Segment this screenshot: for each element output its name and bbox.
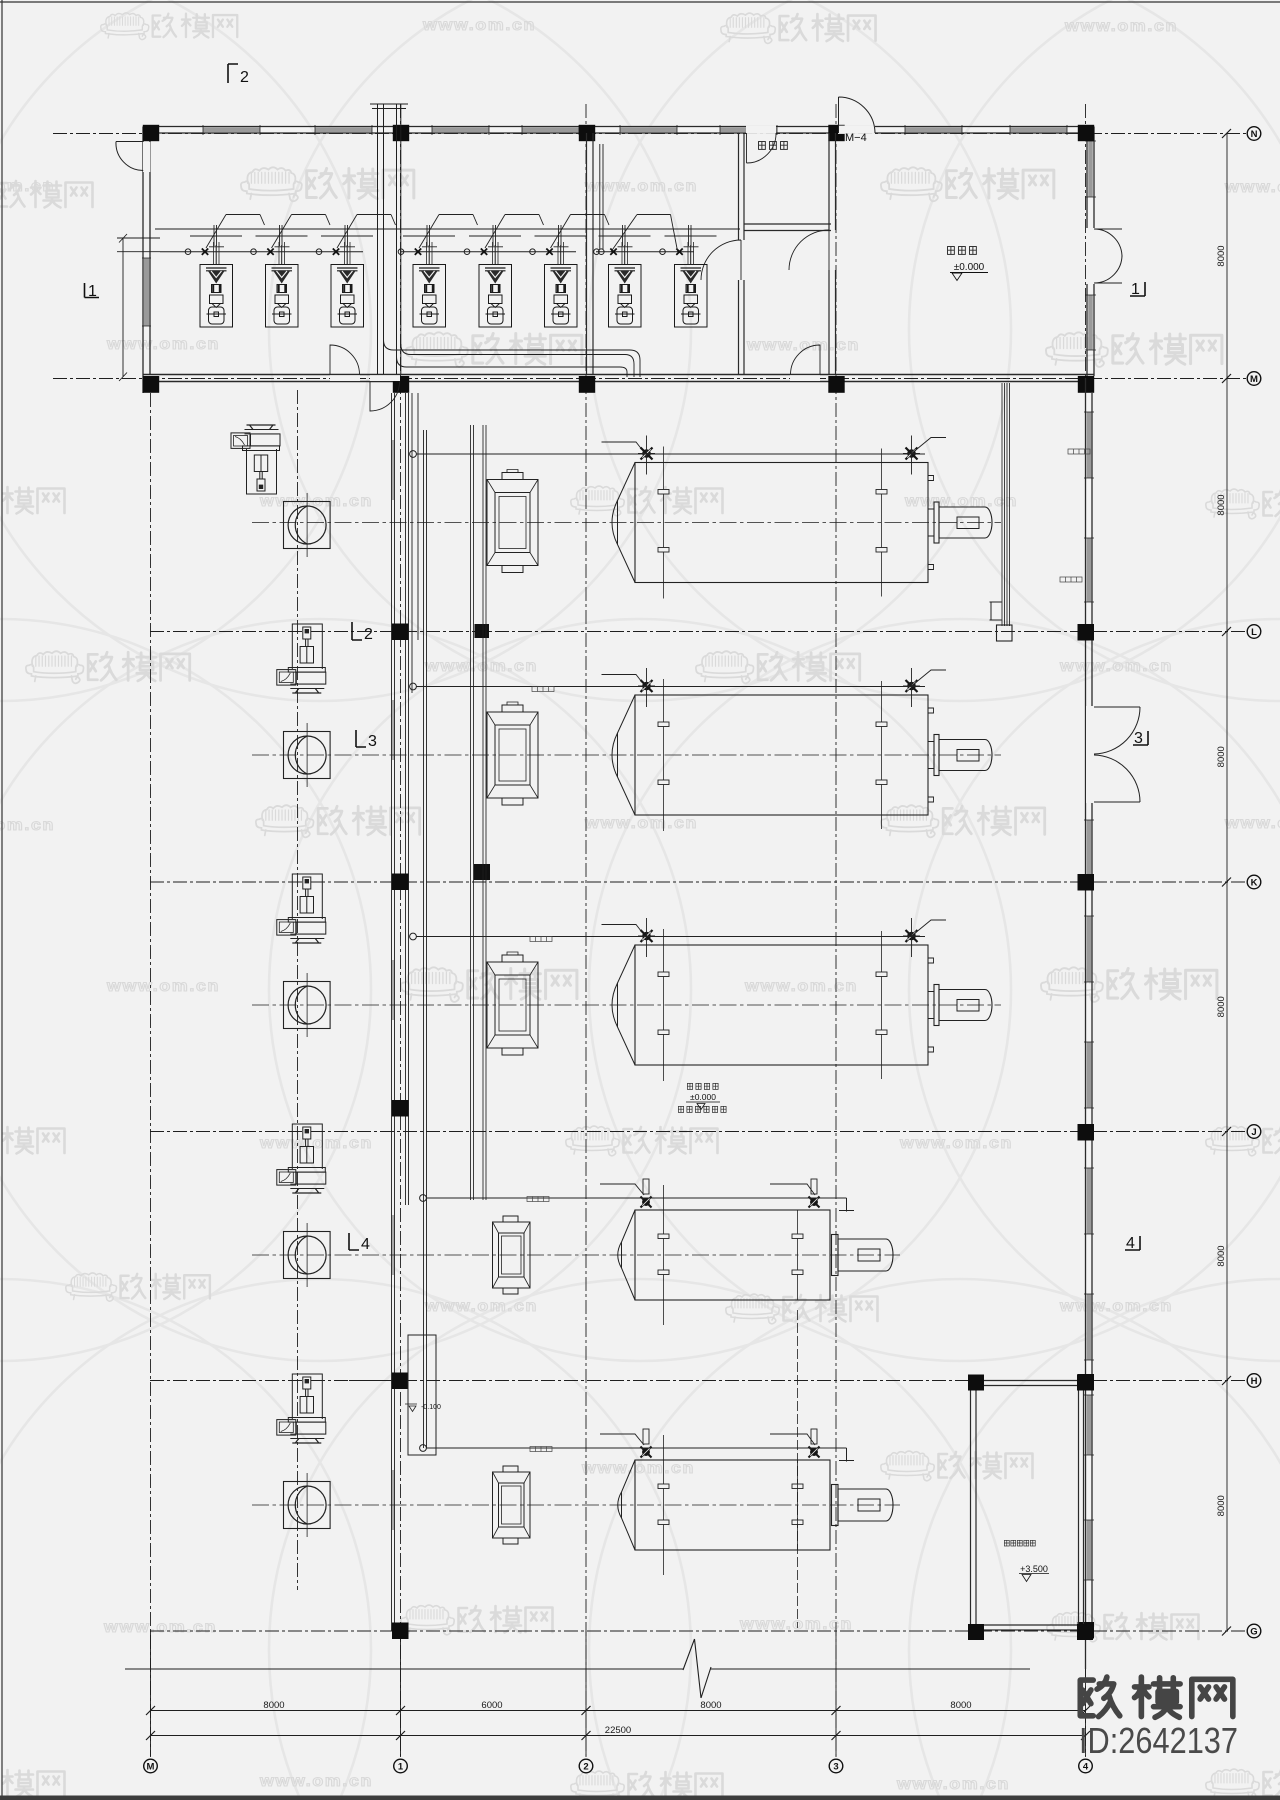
boiler 4: [420, 1179, 893, 1325]
svg-text:3: 3: [1134, 730, 1143, 747]
deduster unit row2: [277, 624, 326, 693]
top wall door M-4: [838, 126, 875, 134]
svg-text:3: 3: [368, 733, 377, 750]
label operation room: [759, 142, 788, 150]
top wall door at operation room: [746, 126, 776, 134]
fan F3: [284, 973, 331, 1037]
boiler 2: [410, 668, 992, 831]
tiny pipe labels: [527, 449, 1090, 1452]
deduster unit row4: [277, 1124, 326, 1193]
svg-text:8000: 8000: [1216, 746, 1227, 767]
wall between operation and power room: [829, 133, 836, 375]
drawing sheet top border: [0, 1, 1280, 3]
svg-text:8000: 8000: [263, 1700, 284, 1711]
economizer E5: [493, 1466, 531, 1544]
svg-text:22500: 22500: [605, 1725, 631, 1736]
valve set cell 7: [594, 225, 651, 265]
axis bubble 3: [829, 1759, 843, 1773]
economizer E3: [487, 952, 538, 1055]
section marker 4 right: [1125, 1236, 1140, 1250]
svg-text:8000: 8000: [1216, 1495, 1227, 1516]
boiler B2 internal tube lines: [664, 679, 882, 831]
M wall door (arc down into hall): [370, 375, 400, 381]
left wall window: [144, 258, 149, 326]
svg-text:2: 2: [240, 69, 249, 86]
boiler B1 shell: [635, 463, 928, 583]
svg-text:N: N: [1251, 129, 1258, 140]
section marker 2 at L: [352, 622, 362, 640]
section marker 2 top: [228, 64, 238, 83]
economizer E4: [493, 1216, 531, 1294]
svg-text:8000: 8000: [1216, 996, 1227, 1017]
coal feeder cell 3: [331, 245, 364, 327]
shaft pipes bending right: [384, 340, 641, 377]
M wall door (bay1, arc up): [330, 375, 360, 381]
rack hatch segments: [392, 440, 394, 1530]
rack anchor blocks axis1: [392, 624, 490, 1640]
boiler B4 nozzles: [640, 1196, 651, 1207]
boiler B5 drive motor: [832, 1485, 839, 1526]
svg-text:M−4: M−4: [845, 132, 867, 144]
boiler B1 internal tube lines: [664, 447, 882, 599]
boiler 3: [410, 918, 992, 1081]
valve set cell 8: [660, 225, 717, 265]
coal feeder cell 8: [675, 245, 708, 327]
coal feeder cell 2: [266, 245, 299, 327]
boiler 1: [410, 436, 992, 599]
valve set cell 2: [251, 215, 330, 265]
riser pipe right x1002: [1002, 383, 1010, 626]
grid bubble K: [1247, 875, 1261, 889]
bottom dark bar: [0, 1796, 1280, 1800]
fan F5: [284, 1473, 331, 1537]
boiler B2 shell: [635, 695, 928, 815]
section marker 3 right: [1133, 731, 1148, 745]
right dimension line 8000 chain: [1222, 129, 1231, 1636]
svg-text:8000: 8000: [1216, 245, 1227, 266]
boiler B5 nozzles: [640, 1446, 651, 1457]
grid bubble M: [1247, 372, 1261, 386]
grid line 4: [1085, 104, 1087, 1756]
rooftop room walls: [971, 1381, 1084, 1631]
boiler B4 feed pipe: [420, 1195, 427, 1202]
valve set cell 3: [316, 215, 395, 265]
boiler B1 nozzles: [641, 448, 653, 460]
svg-text:J: J: [1251, 1127, 1256, 1138]
valve set cell 5: [464, 215, 543, 265]
grid line 2: [585, 104, 587, 1756]
svg-text:8000: 8000: [1216, 1245, 1227, 1266]
valve set cell 1: [185, 215, 264, 265]
grid line G: [150, 1630, 1247, 1632]
coal feeder cell 1: [200, 245, 233, 327]
svg-text:-0.100: -0.100: [421, 1404, 441, 1411]
svg-text:8000: 8000: [1216, 494, 1227, 515]
door arc power room: [789, 230, 829, 270]
svg-text:K: K: [1251, 877, 1258, 888]
right wall windows: [1084, 412, 1094, 1580]
section marker 1 right: [1130, 282, 1145, 296]
riser pipes x470-487: [471, 425, 487, 1200]
site logo text: [1080, 1677, 1233, 1717]
grid bubble G: [1247, 1624, 1261, 1638]
svg-text:±0.000: ±0.000: [954, 262, 985, 273]
deduster unit row3: [277, 874, 326, 943]
svg-text:8000: 8000: [700, 1700, 721, 1711]
pipe shaft between rooms 1-2: [370, 104, 408, 374]
grid line 1: [400, 104, 402, 1756]
boiler B3 feed pipe: [410, 933, 417, 940]
section marker 3 left: [356, 730, 366, 747]
hall right wall: [1086, 378, 1093, 1669]
door D1 left wall: [143, 142, 150, 172]
hall bottom line with break: [125, 1639, 1030, 1698]
boiler B5 shell: [635, 1460, 830, 1550]
boiler B1 feed pipe: [410, 451, 417, 458]
label power room: [948, 247, 977, 255]
left dimension tick line: [119, 234, 127, 381]
coal feeder cell 5: [479, 245, 512, 327]
rooftop room columns: [968, 1375, 1093, 1641]
axis bubble 4: [1079, 1759, 1093, 1773]
boiler B3 shell: [635, 945, 928, 1065]
coal feeder cell 7: [609, 245, 642, 327]
fan F1: [284, 493, 331, 557]
axis bubble 2: [579, 1759, 593, 1773]
pipe riser room3: [600, 144, 603, 249]
deduster unit row1 (inverted): [231, 425, 280, 494]
grid line A (left axis): [150, 393, 152, 1756]
svg-text:1: 1: [398, 1761, 404, 1772]
grid line J: [150, 1131, 1247, 1133]
svg-text:1: 1: [88, 283, 97, 300]
svg-text:H: H: [1251, 1376, 1258, 1387]
watermark logos 欧模网: [101, 13, 238, 40]
svg-text:G: G: [1250, 1626, 1257, 1637]
svg-text:M: M: [147, 1761, 155, 1772]
boiler B1 drive motor: [928, 509, 934, 536]
operation room south wall: [744, 224, 831, 231]
grid bubble J: [1247, 1125, 1261, 1139]
svg-text:1: 1: [1131, 281, 1140, 298]
grid line M: [53, 378, 1247, 380]
grid bubble L: [1247, 625, 1261, 639]
boiler B4 shell: [635, 1210, 830, 1300]
equipment centerline axis: [297, 390, 299, 1590]
pipe rack axis 1: [392, 393, 427, 1631]
drawing sheet left border: [1, 0, 3, 1800]
boiler B3 internal tube lines: [664, 929, 882, 1081]
svg-text:ID:2642137: ID:2642137: [1079, 1720, 1238, 1761]
fan F2: [284, 723, 331, 787]
boiler B5 feed pipe: [420, 1445, 427, 1452]
svg-text:4: 4: [1126, 1235, 1135, 1252]
watermark urls www.om.cn: [422, 17, 536, 34]
platform boiler label: [687, 1083, 718, 1089]
coal feeder cell 6: [545, 245, 578, 327]
section marker 4 left: [349, 1233, 359, 1250]
svg-text:2: 2: [583, 1761, 588, 1772]
section marker 1 left: [85, 283, 100, 298]
annex exterior walls: [143, 127, 1094, 394]
structural columns (filled): [143, 125, 1094, 393]
svg-text:8000: 8000: [950, 1700, 971, 1711]
svg-text:L: L: [1251, 627, 1257, 638]
rooftop room label: [1004, 1540, 1035, 1546]
bottom dimension lines: [146, 1631, 1090, 1757]
grid line K: [150, 881, 1247, 883]
duct box axis1: [408, 1335, 436, 1455]
deduster unit row5: [277, 1374, 326, 1443]
grid line 3: [835, 104, 837, 1756]
grid bubble N: [1247, 127, 1261, 141]
svg-text:2: 2: [364, 626, 373, 643]
valve set cell 4: [398, 215, 477, 265]
svg-text:6000: 6000: [481, 1700, 502, 1711]
right wall double door: [1086, 706, 1095, 803]
boiler B2 drive motor: [928, 742, 934, 769]
svg-text:M: M: [1250, 374, 1258, 385]
economizer E2: [487, 702, 538, 805]
operation room wall (x=741): [739, 133, 745, 375]
axis bubble 1: [394, 1759, 408, 1773]
feed pipe headers: [155, 229, 740, 252]
boiler B2 feed pipe: [410, 683, 417, 690]
boiler B3 nozzles: [641, 930, 653, 942]
pipes exiting left wall: [117, 238, 160, 252]
svg-text:±0.000: ±0.000: [690, 1092, 716, 1102]
boiler B4 internal tube lines: [664, 1185, 798, 1325]
top wall window openings: [203, 125, 1067, 135]
fitting on riser at L: [997, 625, 1013, 641]
boiler B2 nozzles: [641, 680, 653, 692]
economizer E1: [487, 470, 538, 573]
interior wall rooms 2-3: [587, 133, 594, 375]
coal feeder cell 4: [413, 245, 446, 327]
operation room door arc: [701, 240, 741, 280]
M wall door power room (arc up): [790, 375, 820, 381]
svg-text:3: 3: [833, 1761, 838, 1772]
right wall double door: [1086, 228, 1095, 284]
svg-text:+3.500: +3.500: [1020, 1564, 1048, 1574]
grid line N: [53, 133, 1247, 135]
boiler B4 drive motor: [832, 1235, 839, 1276]
axis bubble M: [144, 1759, 158, 1773]
vessel centerlines: [252, 523, 1001, 1506]
room3 manifold: [611, 215, 678, 253]
column blocks grid 4: [1078, 624, 1095, 1639]
grid line L: [150, 631, 1247, 633]
valve set cell 6: [530, 215, 609, 265]
grid line H: [150, 1380, 1247, 1382]
boiler B3 drive motor: [928, 992, 934, 1019]
annex right wall windows: [1088, 141, 1093, 197]
svg-text:4: 4: [361, 1236, 370, 1253]
fan F4: [284, 1223, 331, 1287]
boiler 5: [420, 1429, 893, 1575]
boiler B5 internal tube lines: [664, 1435, 798, 1575]
svg-text:4: 4: [1083, 1761, 1089, 1772]
grid bubble H: [1247, 1374, 1261, 1388]
